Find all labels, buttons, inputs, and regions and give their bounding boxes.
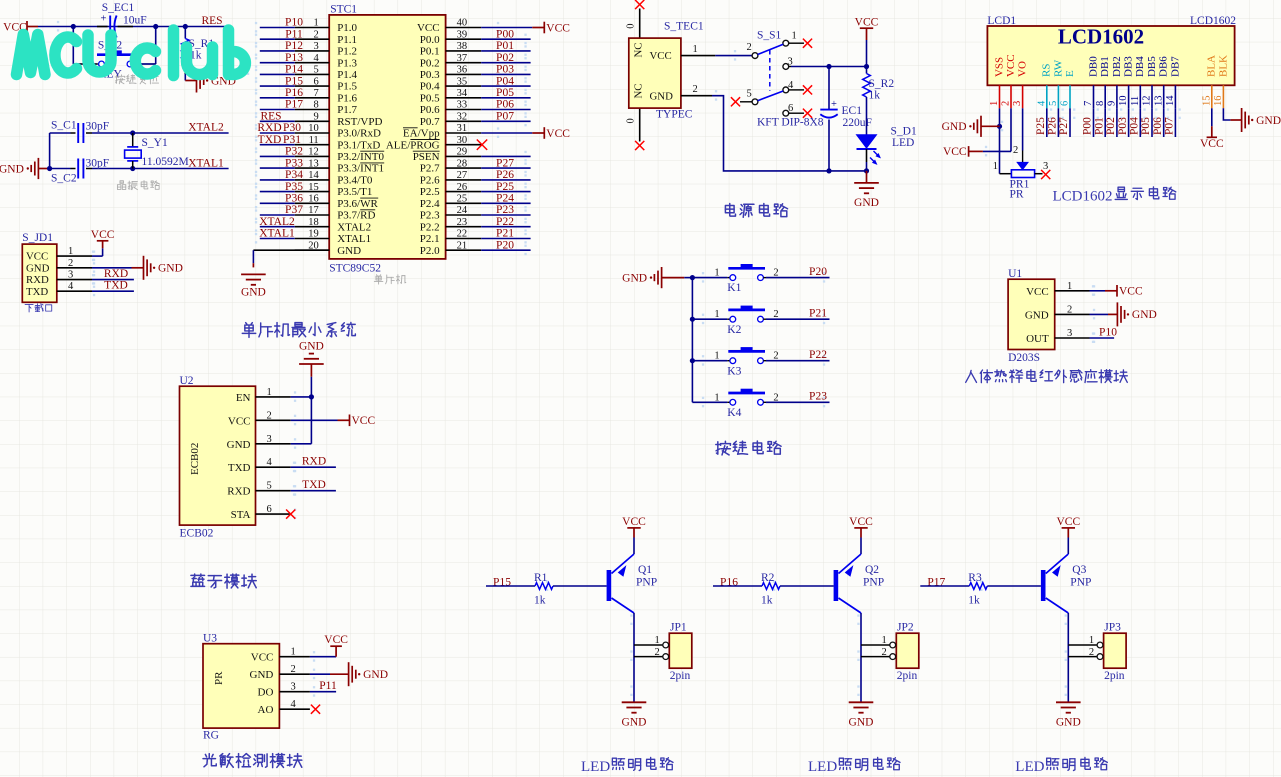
svg-text:P17: P17 [285, 99, 303, 111]
svg-text:4: 4 [291, 699, 297, 710]
svg-text:S_TEC1: S_TEC1 [664, 21, 704, 33]
svg-text:RG: RG [203, 730, 219, 742]
svg-text:5: 5 [1048, 101, 1059, 106]
svg-text:3: 3 [1067, 328, 1072, 339]
svg-text:P3.1/TxD: P3.1/TxD [337, 139, 380, 151]
svg-text:ALE/PROG: ALE/PROG [386, 139, 440, 151]
svg-text:10uF: 10uF [123, 15, 147, 27]
svg-text:2: 2 [1001, 101, 1012, 106]
svg-text:Q1: Q1 [638, 564, 652, 576]
svg-text:40: 40 [457, 18, 468, 29]
svg-text:1: 1 [68, 246, 73, 257]
svg-text:DB2: DB2 [1111, 56, 1123, 77]
svg-text:21: 21 [457, 240, 468, 251]
svg-text:P2.7: P2.7 [420, 163, 440, 175]
svg-text:DB7: DB7 [1169, 56, 1181, 77]
svg-text:P1.1: P1.1 [337, 34, 357, 46]
svg-text:P30: P30 [283, 122, 301, 134]
svg-text:0: 0 [626, 118, 637, 123]
svg-text:P0.7: P0.7 [420, 116, 440, 128]
svg-text:P0.5: P0.5 [420, 92, 440, 104]
svg-text:1: 1 [989, 101, 1000, 106]
svg-text:GND: GND [1025, 309, 1049, 321]
svg-text:LED: LED [581, 759, 610, 775]
svg-text:P04: P04 [1129, 117, 1141, 135]
svg-text:S_C2: S_C2 [51, 173, 77, 185]
svg-text:GND: GND [227, 439, 251, 451]
svg-text:30: 30 [457, 135, 468, 146]
svg-text:PNP: PNP [1070, 577, 1091, 589]
svg-text:P10: P10 [285, 17, 303, 29]
svg-text:BLK: BLK [1217, 55, 1229, 77]
svg-text:P01: P01 [496, 40, 514, 52]
svg-text:VCC: VCC [650, 50, 672, 62]
svg-text:4: 4 [68, 281, 74, 292]
svg-text:P26: P26 [496, 169, 514, 181]
svg-text:LED: LED [892, 137, 914, 149]
svg-text:RST/VPD: RST/VPD [337, 116, 382, 128]
svg-text:P0.4: P0.4 [420, 81, 440, 93]
svg-text:27: 27 [457, 170, 468, 181]
svg-text:17: 17 [308, 205, 319, 216]
svg-text:8: 8 [1095, 101, 1106, 106]
svg-text:JP3: JP3 [1104, 622, 1121, 634]
svg-text:+: + [101, 14, 107, 25]
svg-text:TXD: TXD [302, 479, 326, 491]
svg-text:9: 9 [1107, 101, 1118, 106]
svg-text:P15: P15 [285, 75, 303, 87]
svg-text:P03: P03 [1117, 117, 1129, 135]
svg-text:R2: R2 [761, 572, 775, 584]
svg-text:30pF: 30pF [86, 121, 110, 133]
svg-text:P07: P07 [496, 111, 514, 123]
svg-text:P11: P11 [319, 680, 337, 692]
svg-text:1: 1 [714, 268, 719, 279]
svg-text:P2.6: P2.6 [420, 175, 440, 187]
svg-text:STC89C52: STC89C52 [329, 262, 381, 274]
svg-text:S_EC1: S_EC1 [102, 2, 135, 14]
svg-text:ECB02: ECB02 [189, 443, 201, 475]
svg-text:8: 8 [313, 100, 318, 111]
svg-text:10: 10 [1118, 96, 1129, 107]
svg-text:TXD: TXD [26, 286, 48, 298]
svg-text:XTAL1: XTAL1 [259, 228, 295, 240]
svg-text:31: 31 [457, 123, 468, 134]
svg-text:29: 29 [457, 147, 468, 158]
svg-text:33: 33 [457, 100, 468, 111]
svg-text:4: 4 [267, 457, 273, 468]
svg-text:VCC: VCC [546, 22, 570, 34]
svg-text:0: 0 [626, 24, 637, 29]
svg-text:DB0: DB0 [1087, 56, 1099, 77]
svg-text:P1.7: P1.7 [337, 104, 357, 116]
svg-text:13: 13 [308, 158, 319, 169]
svg-text:32: 32 [457, 112, 468, 123]
svg-text:E: E [1064, 70, 1076, 77]
svg-text:35: 35 [457, 76, 468, 87]
svg-text:3: 3 [267, 434, 272, 445]
svg-text:P27: P27 [496, 157, 514, 169]
svg-text:1: 1 [792, 31, 797, 42]
svg-text:11: 11 [309, 135, 319, 146]
svg-text:5: 5 [267, 481, 272, 492]
svg-text:RES: RES [260, 111, 281, 123]
svg-text:S_JD1: S_JD1 [22, 232, 53, 244]
svg-text:30pF: 30pF [86, 158, 110, 170]
svg-text:VCC: VCC [26, 251, 48, 263]
svg-text:VSS: VSS [993, 57, 1005, 77]
svg-text:2: 2 [882, 647, 887, 658]
svg-text:EC1: EC1 [842, 105, 863, 117]
svg-text:AO: AO [258, 704, 274, 716]
svg-text:9: 9 [313, 112, 318, 123]
svg-text:5: 5 [747, 88, 752, 99]
svg-text:P23: P23 [496, 204, 514, 216]
svg-text:ECB02: ECB02 [180, 528, 214, 540]
svg-text:2: 2 [747, 42, 752, 53]
svg-text:P11: P11 [285, 28, 303, 40]
svg-text:NC: NC [633, 43, 645, 58]
svg-text:P3.0/RxD: P3.0/RxD [337, 128, 381, 140]
svg-text:P1.6: P1.6 [337, 92, 357, 104]
svg-text:BLA: BLA [1206, 55, 1218, 77]
svg-text:P2.5: P2.5 [420, 186, 440, 198]
svg-text:PR: PR [213, 671, 225, 685]
svg-text:34: 34 [457, 88, 468, 99]
svg-text:GND: GND [337, 245, 361, 257]
svg-text:K4: K4 [727, 407, 741, 419]
svg-text:P24: P24 [496, 193, 514, 205]
svg-text:2pin: 2pin [897, 670, 918, 682]
svg-text:P1.4: P1.4 [337, 69, 357, 81]
svg-text:PNP: PNP [636, 577, 657, 589]
svg-text:GND: GND [1256, 115, 1281, 127]
svg-text:P34: P34 [285, 169, 303, 181]
svg-text:P3.2/INT0: P3.2/INT0 [337, 151, 384, 163]
svg-text:LCD1602: LCD1602 [1190, 15, 1236, 27]
svg-text:P22: P22 [809, 349, 827, 361]
svg-text:GND: GND [622, 716, 647, 728]
svg-text:JP1: JP1 [670, 622, 687, 634]
svg-text:15: 15 [1201, 96, 1212, 107]
svg-text:K2: K2 [727, 324, 741, 336]
svg-text:VCC: VCC [855, 17, 879, 29]
svg-text:2: 2 [1067, 304, 1072, 315]
svg-text:XTAL1: XTAL1 [337, 233, 371, 245]
svg-text:P00: P00 [496, 28, 514, 40]
svg-text:2: 2 [773, 309, 778, 320]
svg-text:DB3: DB3 [1123, 56, 1135, 77]
svg-text:VCC: VCC [251, 652, 274, 664]
svg-text:1: 1 [291, 647, 296, 658]
svg-text:2: 2 [267, 410, 272, 421]
svg-text:EA/Vpp: EA/Vpp [403, 128, 440, 140]
svg-text:4: 4 [313, 53, 319, 64]
svg-text:28: 28 [457, 158, 468, 169]
svg-text:P02: P02 [496, 52, 514, 64]
svg-text:P13: P13 [285, 52, 303, 64]
svg-text:K3: K3 [727, 365, 741, 377]
svg-text:GND: GND [0, 163, 24, 175]
svg-text:RXD: RXD [302, 456, 326, 468]
svg-text:VCC: VCC [417, 22, 440, 34]
svg-text:VCC: VCC [228, 415, 251, 427]
svg-text:1: 1 [714, 351, 719, 362]
svg-text:3: 3 [291, 682, 296, 693]
svg-text:16: 16 [1213, 96, 1224, 107]
svg-text:K1: K1 [727, 282, 741, 294]
svg-text:RS: RS [1041, 64, 1053, 77]
svg-text:LCD1602: LCD1602 [1058, 25, 1144, 49]
svg-text:GND: GND [158, 263, 183, 275]
svg-text:13: 13 [1153, 96, 1164, 107]
svg-text:14: 14 [308, 170, 319, 181]
svg-text:11: 11 [1130, 96, 1141, 106]
svg-text:P25: P25 [496, 181, 514, 193]
svg-text:+: + [831, 99, 837, 110]
svg-text:JP2: JP2 [897, 622, 914, 634]
svg-text:1k: 1k [968, 595, 980, 607]
svg-text:12: 12 [308, 147, 319, 158]
svg-text:U2: U2 [180, 375, 194, 387]
svg-text:PNP: PNP [863, 577, 884, 589]
svg-text:S_Y1: S_Y1 [142, 137, 168, 149]
svg-text:11.0592M: 11.0592M [142, 156, 189, 168]
svg-text:1: 1 [693, 44, 698, 55]
svg-text:XTAL2: XTAL2 [259, 216, 295, 228]
svg-text:2: 2 [773, 268, 778, 279]
svg-text:P36: P36 [285, 193, 303, 205]
svg-text:KFT DIP-8X8: KFT DIP-8X8 [757, 116, 824, 128]
svg-text:P22: P22 [496, 216, 514, 228]
svg-text:37: 37 [457, 53, 468, 64]
svg-text:GND: GND [1132, 309, 1157, 321]
svg-text:2pin: 2pin [670, 670, 691, 682]
svg-text:P07: P07 [1164, 117, 1176, 135]
svg-text:TXD: TXD [258, 134, 282, 146]
svg-text:18: 18 [308, 217, 319, 228]
svg-text:XTAL2: XTAL2 [188, 122, 224, 134]
svg-text:P10: P10 [1099, 326, 1117, 338]
svg-text:Q2: Q2 [865, 564, 879, 576]
svg-text:P3.4/T0: P3.4/T0 [337, 175, 373, 187]
svg-text:VO: VO [1017, 61, 1029, 77]
svg-text:U1: U1 [1008, 268, 1022, 280]
svg-text:3: 3 [68, 270, 73, 281]
svg-text:6: 6 [313, 76, 318, 87]
svg-text:P3.6/WR: P3.6/WR [337, 198, 378, 210]
svg-text:DB5: DB5 [1146, 56, 1158, 77]
svg-text:P0.3: P0.3 [420, 69, 440, 81]
svg-text:10: 10 [308, 123, 319, 134]
svg-text:P3.7/RD: P3.7/RD [337, 210, 375, 222]
svg-text:15: 15 [308, 182, 319, 193]
svg-text:2pin: 2pin [1104, 670, 1125, 682]
svg-text:P26: P26 [1047, 117, 1059, 135]
svg-text:P21: P21 [496, 228, 514, 240]
svg-text:2: 2 [291, 664, 296, 675]
svg-text:DB4: DB4 [1134, 56, 1146, 77]
svg-text:P37: P37 [285, 204, 303, 216]
svg-text:P04: P04 [496, 75, 514, 87]
svg-text:VCC: VCC [324, 634, 348, 646]
svg-text:P0.2: P0.2 [420, 57, 440, 69]
svg-text:P33: P33 [285, 157, 303, 169]
svg-text:P2.0: P2.0 [420, 245, 440, 257]
svg-text:6: 6 [1060, 101, 1071, 106]
svg-text:P27: P27 [1058, 117, 1070, 135]
svg-text:P03: P03 [496, 64, 514, 76]
svg-text:P31: P31 [283, 134, 301, 146]
svg-text:RES: RES [201, 15, 222, 27]
svg-text:U3: U3 [203, 633, 217, 645]
svg-text:1: 1 [655, 635, 660, 646]
svg-text:23: 23 [457, 217, 468, 228]
svg-text:EN: EN [236, 392, 251, 404]
svg-text:P2.4: P2.4 [420, 198, 440, 210]
svg-text:26: 26 [457, 182, 468, 193]
svg-text:VCC: VCC [1200, 138, 1224, 150]
svg-text:3: 3 [1012, 101, 1023, 106]
svg-text:1k: 1k [761, 595, 773, 607]
svg-text:14: 14 [1165, 95, 1176, 106]
svg-text:7: 7 [1083, 101, 1094, 106]
svg-text:P01: P01 [1093, 117, 1105, 135]
svg-text:GND: GND [250, 669, 274, 681]
svg-text:2: 2 [693, 84, 698, 95]
svg-text:VCC: VCC [849, 516, 873, 528]
svg-text:VCC: VCC [91, 229, 115, 241]
svg-text:VCC: VCC [622, 516, 646, 528]
svg-text:GND: GND [650, 91, 674, 103]
svg-text:GND: GND [942, 121, 967, 133]
svg-text:P02: P02 [1105, 117, 1117, 135]
svg-text:RXD: RXD [257, 122, 281, 134]
svg-text:GND: GND [622, 272, 647, 284]
svg-text:3: 3 [1043, 161, 1048, 172]
svg-text:P0.0: P0.0 [420, 34, 440, 46]
svg-text:XTAL1: XTAL1 [188, 158, 224, 170]
svg-text:OUT: OUT [1026, 333, 1049, 345]
svg-text:P2.3: P2.3 [420, 210, 440, 222]
svg-text:1: 1 [1067, 281, 1072, 292]
svg-text:Q3: Q3 [1072, 564, 1086, 576]
svg-text:VCC: VCC [546, 128, 570, 140]
svg-text:VCC: VCC [943, 146, 967, 158]
svg-text:P1.5: P1.5 [337, 81, 357, 93]
svg-text:19: 19 [308, 229, 319, 240]
svg-text:VCC: VCC [1119, 286, 1143, 298]
svg-text:S_R2: S_R2 [869, 78, 895, 90]
svg-text:RXD: RXD [26, 274, 49, 286]
svg-text:P0.1: P0.1 [420, 46, 440, 58]
svg-text:VCC: VCC [1026, 286, 1049, 298]
svg-text:XTAL2: XTAL2 [337, 221, 371, 233]
svg-text:1: 1 [993, 161, 998, 172]
svg-text:P00: P00 [1082, 117, 1094, 135]
svg-text:P1.3: P1.3 [337, 57, 357, 69]
svg-text:P0.6: P0.6 [420, 104, 440, 116]
svg-text:P05: P05 [1140, 117, 1152, 135]
svg-text:22: 22 [457, 229, 468, 240]
svg-text:GND: GND [299, 341, 324, 353]
svg-text:VCC: VCC [352, 415, 376, 427]
svg-text:220uF: 220uF [843, 117, 872, 129]
svg-text:LCD1602: LCD1602 [1053, 189, 1113, 205]
svg-text:P3.5/T1: P3.5/T1 [337, 186, 372, 198]
svg-text:36: 36 [457, 65, 468, 76]
svg-text:2: 2 [773, 351, 778, 362]
svg-text:LED: LED [808, 759, 837, 775]
svg-text:P35: P35 [285, 181, 303, 193]
svg-text:P3.3/INT1: P3.3/INT1 [337, 163, 384, 175]
svg-text:P21: P21 [809, 308, 827, 320]
svg-text:24: 24 [457, 205, 468, 216]
svg-text:LED: LED [1015, 759, 1044, 775]
svg-text:GND: GND [363, 669, 388, 681]
svg-text:P06: P06 [1152, 117, 1164, 135]
svg-text:2: 2 [68, 258, 73, 269]
svg-text:DB1: DB1 [1099, 56, 1111, 77]
svg-text:VCC: VCC [1056, 516, 1080, 528]
svg-text:39: 39 [457, 29, 468, 40]
svg-text:1k: 1k [534, 595, 546, 607]
svg-text:VCC: VCC [1005, 54, 1017, 77]
svg-text:2: 2 [1013, 145, 1018, 156]
svg-text:TXD: TXD [228, 462, 251, 474]
svg-text:1: 1 [882, 635, 887, 646]
svg-text:12: 12 [1142, 96, 1153, 107]
svg-text:GND: GND [241, 287, 266, 299]
svg-text:P06: P06 [496, 99, 514, 111]
svg-text:1: 1 [714, 392, 719, 403]
svg-text:2: 2 [1089, 647, 1094, 658]
svg-text:P25: P25 [1035, 117, 1047, 135]
svg-text:STA: STA [231, 509, 251, 521]
svg-text:PR: PR [1010, 188, 1024, 200]
svg-text:16: 16 [308, 194, 319, 205]
svg-text:2: 2 [655, 647, 660, 658]
svg-text:RXD: RXD [227, 486, 250, 498]
svg-text:3: 3 [313, 41, 318, 52]
svg-text:P05: P05 [496, 87, 514, 99]
svg-text:1k: 1k [869, 90, 881, 102]
svg-text:P1.0: P1.0 [337, 22, 357, 34]
svg-text:GND: GND [26, 262, 50, 274]
svg-text:2: 2 [773, 392, 778, 403]
svg-text:STC1: STC1 [330, 3, 357, 15]
svg-text:5: 5 [313, 65, 318, 76]
svg-text:P16: P16 [285, 87, 303, 99]
svg-text:LCD1: LCD1 [987, 15, 1016, 27]
svg-text:P32: P32 [285, 146, 303, 158]
svg-text:R3: R3 [968, 572, 982, 584]
svg-text:RW: RW [1052, 59, 1064, 77]
svg-text:S_D1: S_D1 [891, 125, 917, 137]
svg-text:3: 3 [788, 56, 793, 67]
svg-text:PSEN: PSEN [413, 151, 440, 163]
svg-text:GND: GND [1056, 716, 1081, 728]
svg-text:RXD: RXD [104, 268, 128, 280]
svg-text:P12: P12 [285, 40, 303, 52]
svg-text:P14: P14 [285, 64, 303, 76]
svg-text:TYPEC: TYPEC [656, 109, 693, 121]
svg-text:1: 1 [313, 18, 318, 29]
svg-text:P2.2: P2.2 [420, 221, 440, 233]
svg-text:P23: P23 [809, 391, 827, 403]
svg-text:4: 4 [1036, 100, 1047, 106]
svg-text:P2.1: P2.1 [420, 233, 440, 245]
